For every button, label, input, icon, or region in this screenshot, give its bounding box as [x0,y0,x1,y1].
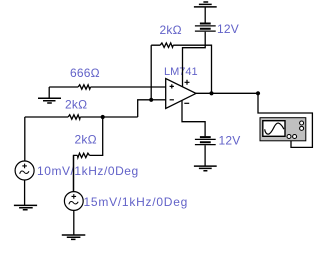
wire noninverting input [49,86,166,88]
wire feedback left vertical [150,45,152,100]
ground G2 [14,205,37,209]
source V4 circle [64,192,83,211]
svg-text:LM741: LM741 [164,66,198,78]
ground G4 [194,166,217,171]
svg-text:12V: 12V [217,22,239,36]
svg-text:2kΩ: 2kΩ [75,133,97,147]
ground G1 stem [48,87,50,98]
wire source V3 top stem [24,117,26,161]
wire G5 to battery V1 [204,7,206,23]
svg-text:15mV/1kHz/0Deg: 15mV/1kHz/0Deg [84,195,189,209]
oscilloscope knob 4 [293,135,297,139]
source V4 sine [69,201,78,204]
junction dot output feedback [209,91,213,95]
wire inverting to R2 net [138,100,152,117]
wire R3 branch [74,117,103,192]
wire battery V2 to ground [204,145,206,166]
oscilloscope knob 3 [287,135,291,139]
source V4 plus [72,194,77,199]
resistor R2 2kΩ [68,115,80,119]
source V3 sine [20,171,29,174]
op-amp power minus mark [184,102,189,104]
oscilloscope knob 1 [300,121,304,125]
source V3 plus [22,164,27,169]
oscilloscope XSC1 body [260,118,306,141]
oscilloscope knob 2 [300,126,304,130]
resistor R4 2kΩ feedback [160,43,173,47]
wire inverting input stub [151,99,166,101]
ground G3 [62,235,86,239]
battery V1 [195,24,216,32]
battery V2 [195,137,216,145]
wire source V3 bottom stem [24,180,26,205]
wire output [196,92,258,94]
resistor R1 666Ω [78,85,90,89]
wire R2 net [25,116,138,118]
wire opamp V- to battery V2 [182,100,205,136]
source V3 circle [15,161,34,180]
junction dot scope [256,91,260,95]
op-amp input plus mark [170,84,174,88]
op-amp input minus mark [170,99,174,101]
wire feedback top [151,45,211,93]
resistor R3 2kΩ [78,153,90,157]
wire output to scope [258,93,312,147]
ground G5 top inverted [194,2,217,7]
oscilloscope waveform [265,123,284,134]
wire source V4 bottom stem [73,210,75,235]
oscilloscope screen [263,121,285,137]
svg-text:2kΩ: 2kΩ [160,23,182,37]
junction dot R2 net [101,115,105,119]
svg-text:12V: 12V [219,134,241,148]
svg-text:666Ω: 666Ω [70,66,100,80]
svg-text:2kΩ: 2kΩ [65,98,87,112]
svg-text:10mV/1kHz/0Deg: 10mV/1kHz/0Deg [37,164,139,178]
ground G1 [38,98,61,103]
wire source V4 top stem [73,155,75,191]
wire battery V1 to opamp V+ [183,32,206,87]
op-amp power plus mark [185,80,190,85]
junction dot inverting input [149,98,153,102]
op-amp U1 triangle [166,79,196,109]
